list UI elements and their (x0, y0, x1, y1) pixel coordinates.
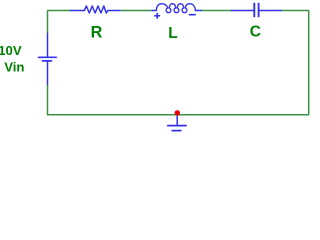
wire right + bottom + left lower segment (48, 11, 309, 115)
ground long bar (168, 125, 186, 127)
battery V1 bottom lead (47, 62, 49, 84)
battery V1 top lead (47, 33, 49, 56)
svg-text:C: C (250, 24, 261, 41)
svg-text:R: R (91, 24, 103, 42)
junction node dot (175, 110, 180, 115)
battery V1 short plate (43, 60, 52, 62)
battery V1 long plate (39, 56, 57, 58)
capacitor C plate 1 (253, 4, 255, 17)
svg-text:Vin: Vin (4, 60, 24, 75)
wire top segment between R and L (120, 10, 152, 12)
capacitor C left lead (232, 10, 254, 12)
inductor - polarity mark (190, 14, 196, 16)
inductor + polarity mark (155, 14, 160, 19)
wire top segment between L and C (201, 10, 232, 12)
ground stem (176, 114, 178, 125)
capacitor C right lead (260, 10, 282, 12)
svg-text:10V: 10V (0, 43, 22, 58)
wire loop (green net): top-left corner + left upper segment (48, 11, 71, 34)
ground short bar (172, 130, 181, 132)
wire top blue segment resistor region (71, 10, 85, 12)
capacitor C plate 2 (258, 4, 260, 17)
inductor L (152, 4, 201, 13)
resistor R (84, 6, 120, 13)
svg-text:L: L (168, 25, 177, 42)
